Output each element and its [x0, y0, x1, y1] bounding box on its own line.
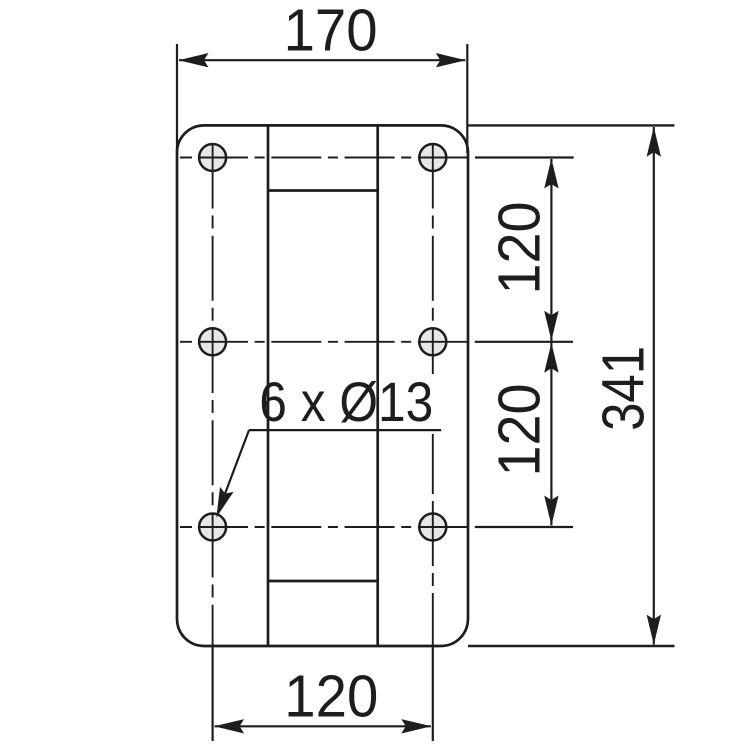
- hole mid-right: [419, 328, 446, 355]
- hole top-right: [419, 144, 446, 171]
- leader arrowhead: [210, 487, 234, 520]
- dim 170 extension line left: [176, 44, 178, 153]
- centerline row 3: [180, 526, 467, 528]
- dim 120 vertical dimension line: [550, 159, 552, 526]
- dim 170 dimension line: [179, 59, 465, 61]
- channel right line: [376, 125, 379, 646]
- centerline column left: [212, 144, 214, 647]
- dim 120 bottom arrow left: [214, 719, 244, 733]
- dim 341 top extension line: [468, 124, 675, 126]
- svg-text:170: 170: [284, 0, 378, 64]
- dim 120 upper arrow up: [544, 159, 558, 189]
- svg-text:120: 120: [487, 384, 553, 477]
- leader diagonal line: [220, 430, 249, 507]
- leader shelf line: [249, 429, 441, 431]
- dim 120 bottom ext line left: [212, 647, 214, 741]
- channel left line: [267, 125, 270, 646]
- channel top rib line: [268, 189, 378, 192]
- hole mid-left: [199, 328, 226, 355]
- plate outline: [177, 125, 468, 646]
- dim 170 extension line right: [466, 44, 468, 153]
- centerline column right: [432, 144, 434, 647]
- hole bottom-left: [199, 514, 226, 541]
- dim 120 bottom ext line right: [432, 647, 434, 741]
- dim 170 arrow left: [179, 53, 209, 67]
- dim 341 bottom extension line: [468, 645, 675, 647]
- dim 120 upper ext line row1: [475, 156, 574, 158]
- channel bottom rib line: [268, 580, 378, 583]
- dim 120 ext line row3: [475, 526, 573, 528]
- hole top-left: [199, 144, 226, 171]
- svg-text:6 x Ø13: 6 x Ø13: [259, 370, 433, 433]
- dim 341 arrow down: [647, 615, 661, 645]
- dim 341 arrow up: [647, 127, 661, 157]
- dim 120 mid arrow from above: [544, 311, 558, 341]
- svg-text:120: 120: [284, 664, 378, 730]
- svg-text:120: 120: [487, 202, 553, 295]
- dim 120 bottom dimension line: [215, 725, 431, 727]
- dim 120 mid arrow from below: [544, 343, 558, 373]
- centerline row 1: [180, 157, 467, 159]
- centerline row 2: [180, 341, 467, 343]
- dim 120 lower arrow down: [544, 496, 558, 526]
- dim 341 dimension line: [653, 127, 655, 645]
- dim 120 ext line row2: [475, 341, 573, 343]
- dim 120 bottom arrow right: [401, 719, 431, 733]
- hole bottom-right: [419, 514, 446, 541]
- dim 170 arrow right: [436, 53, 466, 67]
- svg-text:341: 341: [591, 346, 657, 431]
